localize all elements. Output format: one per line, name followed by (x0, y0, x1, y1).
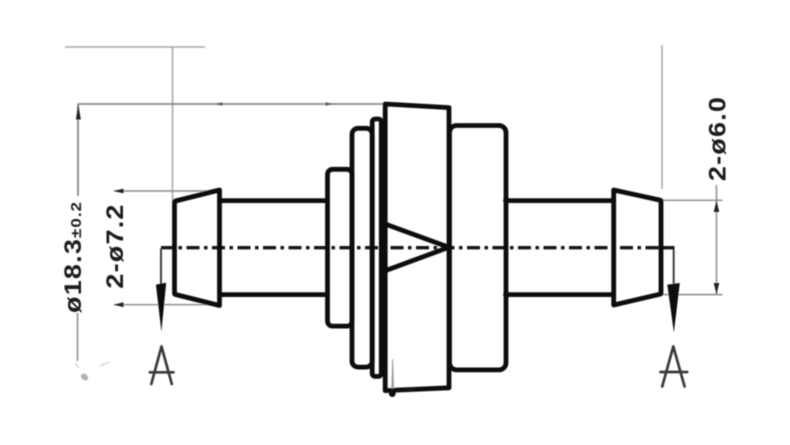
plate block (372, 119, 381, 376)
arrowhead 7.2 top (114, 189, 124, 194)
scan speck faint tick (100, 362, 109, 366)
svg-text:2-ø7.2: 2-ø7.2 (102, 203, 128, 288)
right cap block (450, 126, 507, 370)
right tube bottom wire (506, 292, 614, 297)
top dimension line (78, 103, 384, 105)
arrowhead up diameter 18.3 (76, 104, 81, 119)
left barb cone (175, 190, 220, 306)
extension line 6.0 top (662, 199, 723, 201)
collar block (328, 169, 353, 326)
section label A left (150, 347, 174, 385)
right tube top wire (506, 198, 614, 203)
left tube bottom wire (221, 292, 328, 297)
faint extension line right barb (661, 45, 663, 189)
arrowhead 6.0 up (714, 201, 720, 213)
leader dot bottom center (389, 390, 396, 397)
section arrow right (667, 283, 680, 333)
arrowhead right on top dimension (326, 102, 334, 106)
main valve body (385, 104, 449, 391)
scan speck bottom left (80, 372, 90, 382)
section line right elbow (673, 250, 675, 284)
leader stub bottom center (391, 359, 394, 389)
section label A right (661, 347, 688, 387)
section arrow left (156, 283, 166, 332)
extension line 7.2 top (114, 190, 222, 192)
svg-text:2-ø6.0: 2-ø6.0 (705, 96, 731, 181)
left tube top wire (221, 198, 328, 203)
faint top reference line (65, 46, 205, 48)
extension line 6.0 bottom (663, 294, 723, 296)
dimension line diameter 18.3 (77, 104, 79, 196)
centerline end dash right (662, 246, 675, 249)
right barb cone (614, 190, 661, 305)
arrowhead 7.2 bottom (114, 302, 124, 307)
flange block (352, 128, 372, 367)
extension line 7.2 bottom (114, 304, 222, 306)
arrowhead left on top dimension (215, 102, 223, 106)
scan speck faint dot (75, 363, 79, 368)
svg-text:ø18.3±0.2: ø18.3±0.2 (60, 201, 86, 313)
internal valve cone (387, 225, 449, 271)
centerline dash-dot (161, 246, 674, 249)
leader arrow bottom center (402, 387, 415, 392)
arrowhead 6.0 down (714, 283, 720, 294)
section line left elbow (160, 249, 162, 285)
dimension line diameter 6.0 (716, 185, 718, 295)
faint extension line left barb (172, 47, 174, 200)
